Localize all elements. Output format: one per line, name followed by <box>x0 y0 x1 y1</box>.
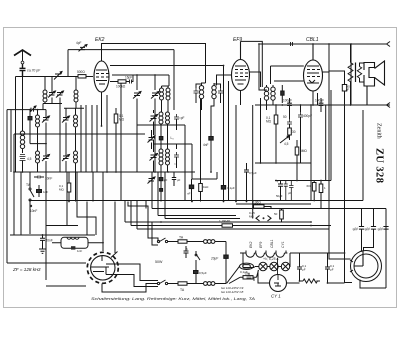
wire EF9 grid from IF <box>214 75 232 86</box>
bus y180 right <box>275 180 331 182</box>
row2 trimmer right <box>62 134 70 172</box>
can bottom rectangle <box>360 280 386 289</box>
variable capacitor C-ant <box>54 72 62 80</box>
svg-text:EK2: EK2 <box>95 37 105 43</box>
svg-text:50μF: 50μF <box>276 194 283 198</box>
IF transformer A upper coils <box>159 112 170 149</box>
wire x297 ext <box>296 163 298 181</box>
svg-text:CBL1: CBL1 <box>270 239 274 248</box>
filter cap 50uF a <box>352 209 364 252</box>
wire x14 ext <box>13 172 15 235</box>
wire x107 <box>106 95 108 172</box>
capacitor 1nF black <box>37 185 49 197</box>
wire y208 bus <box>152 208 386 210</box>
staircase A wires <box>46 172 78 226</box>
coil row1 left <box>36 110 40 144</box>
svg-text:MΩ: MΩ <box>249 214 254 218</box>
long bus y229 <box>137 201 329 230</box>
wire antenna bus <box>16 76 79 78</box>
battery taps 4,5 <box>20 155 32 173</box>
wire CBL1 g3 <box>317 93 319 105</box>
wire EK2 cathode down <box>101 92 103 126</box>
capacitor IF A low right <box>174 144 179 168</box>
wire frame-side vertical <box>6 110 8 263</box>
wire x192 ext <box>191 172 193 179</box>
resistor 1MOhm <box>114 108 124 172</box>
filter cap 50uF b <box>364 209 377 252</box>
svg-text:10nF: 10nF <box>30 209 37 213</box>
svg-text:0,1μF: 0,1μF <box>240 270 248 274</box>
capacitor 0,1uF left heater <box>240 270 254 281</box>
wire x266 down <box>266 105 268 110</box>
bus y179 <box>192 172 218 179</box>
wire x86 <box>85 105 87 172</box>
wire EF9 cathode <box>240 91 242 106</box>
capacitor x174 small <box>172 172 181 186</box>
resistor 50 box <box>274 209 283 223</box>
wire x311 <box>310 105 312 201</box>
capacitor right of electrolytic <box>288 181 293 201</box>
wire x97 <box>96 105 98 172</box>
svg-text:bei 110-125V C8: bei 110-125V C8 <box>221 290 244 294</box>
wire left vertical <box>15 77 17 173</box>
row A coil La2 <box>74 77 78 109</box>
capacitor below IF A <box>159 172 167 202</box>
wire x344b <box>345 209 353 283</box>
svg-text:μF: μF <box>330 268 334 272</box>
svg-text:EK2: EK2 <box>249 241 253 248</box>
svg-text:μF: μF <box>288 191 292 195</box>
capacitor 500pF <box>342 81 351 105</box>
svg-text:μF: μF <box>302 268 306 272</box>
bus row1 right <box>64 107 84 109</box>
wire y144 link <box>154 143 193 145</box>
capacitor 0,1uF screen black <box>221 186 235 191</box>
resistor 600 <box>307 181 317 201</box>
antenna <box>14 50 31 64</box>
wire CBL1 plate right <box>323 71 330 73</box>
band switch <box>87 252 118 284</box>
IF transformer B coils <box>199 83 216 110</box>
svg-text:100μF: 100μF <box>283 99 292 103</box>
mains switch bottom <box>157 280 178 285</box>
resistor mid <box>199 99 209 202</box>
dial lamp oval <box>240 263 254 269</box>
svg-text:≈pF: ≈pF <box>179 116 185 120</box>
wire x331 ext <box>330 163 332 181</box>
cap black row1 <box>28 110 32 126</box>
filter cap 50uF c <box>377 226 389 288</box>
svg-text:EF9: EF9 <box>259 242 263 248</box>
wire EK2 top to bus <box>102 44 206 84</box>
wire x386 down <box>385 209 387 289</box>
wire x351 vertical <box>350 44 352 105</box>
resistor 100kOhm <box>116 80 130 89</box>
svg-text:MΩ: MΩ <box>59 187 64 191</box>
wire x175 top <box>173 50 175 110</box>
capacitor 50pF <box>283 112 292 128</box>
svg-text:Zenith: Zenith <box>376 123 382 139</box>
wire x363 right long <box>362 110 364 201</box>
bus y134 <box>14 134 145 172</box>
wire EK2 plate right <box>110 66 224 202</box>
wire y75 screen <box>112 75 169 86</box>
capacitor series top right <box>259 42 336 46</box>
staircase C to mains switch <box>130 264 158 281</box>
lamp 2 <box>270 262 278 270</box>
svg-text:4pF: 4pF <box>76 41 82 45</box>
svg-text:MΩ: MΩ <box>119 118 125 122</box>
bus row1 left <box>11 110 29 172</box>
ground <box>39 245 46 254</box>
svg-text:4nF: 4nF <box>203 143 209 147</box>
wire x344 mid <box>344 105 346 209</box>
svg-text:Schalterstellung: Lang. Reihe: Schalterstellung: Lang. Reihenfolge: Kur… <box>91 297 255 301</box>
capacitor 10nF pair <box>34 176 52 181</box>
heater labels rotated <box>249 239 285 248</box>
svg-text:CY 1: CY 1 <box>271 294 281 299</box>
bus y172 <box>14 171 195 173</box>
wire CY1 sides <box>258 271 300 284</box>
capacitor 16pF grid <box>125 75 133 84</box>
svg-text:≈: ≈ <box>174 162 176 166</box>
svg-text:MΩ: MΩ <box>266 120 272 124</box>
svg-text:ca.70 pF: ca.70 pF <box>27 69 41 73</box>
wire CBL1 cathode <box>312 91 314 105</box>
lamp 3 <box>281 262 289 270</box>
wire x192 <box>191 144 193 172</box>
wave trap <box>52 237 103 253</box>
staircase B wires <box>128 202 158 242</box>
electrolytic can <box>350 251 382 282</box>
lamp 1 <box>259 262 267 270</box>
svg-text:ZU 328: ZU 328 <box>374 148 385 183</box>
wire x103 upper <box>102 172 104 202</box>
tube EF9 <box>232 37 250 91</box>
svg-text:500Ω: 500Ω <box>77 70 85 74</box>
resistor 500ohm <box>77 70 93 78</box>
wire x331 <box>330 90 332 163</box>
trimmer IF A mid <box>148 130 156 149</box>
wire x252 det <box>252 105 254 219</box>
wire EF9 plate <box>250 72 261 87</box>
trimmer row1 right <box>62 108 70 134</box>
capacitor 100pF a <box>283 98 292 112</box>
trimmer IF A low <box>150 140 158 172</box>
svg-text:5MΩ: 5MΩ <box>300 149 307 153</box>
wire x228 <box>228 81 230 201</box>
capacitor C right b <box>325 264 345 283</box>
heater chain bumps <box>243 251 287 258</box>
wire x236 <box>235 105 237 201</box>
tube EK2 <box>94 37 109 92</box>
resistor 0,1M AVC <box>266 105 278 163</box>
resistor 5M <box>295 140 307 163</box>
wire vertical x68 <box>67 50 69 77</box>
wire x92 <box>91 105 93 172</box>
wire top feedback y49 <box>68 49 174 51</box>
wire x152 drop <box>151 172 153 209</box>
svg-text:CY1: CY1 <box>281 241 285 248</box>
svg-text:ZF = 128 kHz: ZF = 128 kHz <box>12 267 41 272</box>
resistor 0,1M left <box>59 172 71 201</box>
svg-text:20nF: 20nF <box>46 239 53 243</box>
svg-text:50W: 50W <box>155 260 163 264</box>
capacitor IF B right <box>214 84 223 103</box>
long bus y222 <box>125 201 311 223</box>
wire x300 ext <box>300 125 302 163</box>
wire y71 short <box>329 71 345 81</box>
tall antenna coil <box>20 71 24 153</box>
wire x47 <box>45 172 47 280</box>
svg-text:4,5: 4,5 <box>27 157 32 161</box>
svg-text:0,5μF: 0,5μF <box>199 271 207 275</box>
svg-text:50: 50 <box>283 115 287 119</box>
capacitor 0,5uF <box>194 266 207 284</box>
tube CY1 <box>270 258 287 299</box>
wire switch right a <box>106 263 130 265</box>
wire grid side <box>110 81 118 83</box>
capacitor 4nF screen <box>203 99 214 172</box>
capacitor 0,5uF det <box>244 163 257 202</box>
capacitor IF C <box>281 85 284 103</box>
capacitor IF B left <box>194 84 202 103</box>
long bus y200 <box>29 200 363 202</box>
row2 coil left <box>36 144 40 172</box>
resistor 30k <box>288 128 296 140</box>
resistor zigzag bottom <box>303 279 317 283</box>
voltage selector switch <box>195 251 200 266</box>
junction dot x351 top <box>350 43 352 45</box>
svg-text:20μF: 20μF <box>210 257 219 261</box>
capacitor ca.70pF <box>20 64 42 77</box>
trimmer C k2 <box>151 75 159 172</box>
bus y143 <box>30 126 46 144</box>
speaker <box>364 61 385 105</box>
title Zenith <box>374 123 385 183</box>
bus y218 <box>165 172 240 219</box>
mains switch top <box>157 238 178 243</box>
svg-text:μF: μF <box>177 178 181 182</box>
wire top CBL1 loop <box>259 44 267 90</box>
lamp row wires <box>243 253 290 268</box>
capacitor IF A mid black <box>159 130 163 149</box>
primary coil top <box>204 240 227 244</box>
capacitor IF A right <box>174 114 185 130</box>
wire EF9 top link <box>241 41 263 87</box>
wire ZF bus y263 <box>7 262 86 264</box>
capacitor 10nF black mid <box>187 179 194 202</box>
wire x326 <box>325 105 327 181</box>
terminal bottom right <box>372 103 390 108</box>
wire switch right b <box>106 274 130 276</box>
trimmer row1 left <box>42 110 50 144</box>
resistor right pair <box>319 181 326 209</box>
transformer core <box>355 63 357 83</box>
AVC bus y105 <box>255 104 390 106</box>
capacitor 20uF <box>210 242 228 284</box>
svg-text:4,5: 4,5 <box>284 142 289 146</box>
capacitor 100pF b <box>315 98 324 112</box>
lamp dropper resistor <box>227 266 259 283</box>
wire x93b <box>92 172 94 202</box>
svg-text:1kΩ: 1kΩ <box>203 185 209 189</box>
primary coil bottom <box>204 282 227 286</box>
svg-text:1nF: 1nF <box>77 249 82 253</box>
potentiometer 0,25M <box>249 211 271 221</box>
wire x329 vertical <box>328 44 330 105</box>
capacitor C right a <box>297 264 307 275</box>
bus y215 <box>158 172 236 216</box>
IF transformer C coils <box>264 85 275 105</box>
wire x81 <box>80 105 82 172</box>
wire y163 <box>255 162 311 164</box>
junction dot <box>281 92 283 94</box>
svg-text:600: 600 <box>307 184 312 188</box>
svg-text:CBL1: CBL1 <box>306 37 319 43</box>
long bus y235 <box>10 234 95 236</box>
output transformer secondary <box>357 63 364 82</box>
svg-text:30: 30 <box>292 130 296 134</box>
wire x329 lower <box>329 105 351 259</box>
svg-text:50: 50 <box>274 212 278 216</box>
resistor 1360 <box>253 201 271 209</box>
trimmer C k1 <box>133 75 141 172</box>
row A trimmer 1 <box>48 77 56 104</box>
trimmer below IF A <box>148 177 156 184</box>
IF transformer A lower coils <box>159 149 170 172</box>
svg-text:nF: nF <box>187 192 191 196</box>
TA switch left <box>26 172 34 234</box>
fuse TA top <box>178 236 203 244</box>
svg-text:pF: pF <box>346 88 350 92</box>
capacitor 20nF <box>40 234 53 249</box>
bus y204 <box>236 203 311 205</box>
svg-text:16pF: 16pF <box>125 76 132 80</box>
label 10nF lower <box>30 205 38 213</box>
wire x121 <box>120 83 122 201</box>
output transformer primary <box>348 44 353 105</box>
svg-text:+V, 6,25 A: +V, 6,25 A <box>263 257 279 261</box>
label voltage <box>221 286 244 294</box>
coil row1 right <box>74 108 78 134</box>
row A bus <box>43 104 62 110</box>
terminal top right <box>323 42 391 47</box>
wire x185 <box>184 125 186 201</box>
wire CBL1 grid <box>274 80 304 82</box>
heater bottom wires <box>290 253 345 281</box>
trimmer capacitor top left <box>76 41 87 51</box>
trimmer IF A <box>150 110 158 135</box>
capacitor 4000pF <box>298 105 312 125</box>
wire x146 drop <box>145 201 147 209</box>
svg-text:1,28MΩ: 1,28MΩ <box>219 220 231 224</box>
series trimmer row1 <box>29 106 46 112</box>
coil pair top x161 x168 <box>160 86 171 112</box>
wire x21 ext <box>20 172 22 235</box>
fuse TA bottom <box>178 282 203 292</box>
svg-text:100μF: 100μF <box>315 99 324 103</box>
bus y125 <box>137 124 185 126</box>
tube CBL1 <box>304 37 323 91</box>
row2 trimmer left <box>42 144 50 172</box>
row A coil La1 <box>43 77 47 104</box>
wire x261 <box>260 98 262 163</box>
capacitor 5nF mains <box>184 246 189 258</box>
svg-text:0,1μF: 0,1μF <box>227 186 235 190</box>
resistor 128k horizontal <box>131 201 331 228</box>
electrolytic 50uF pair <box>276 180 288 201</box>
row A trimmer 2 <box>56 91 64 172</box>
wire CBL1 screen y66 <box>271 66 304 84</box>
row2 coil right <box>74 134 78 202</box>
potentiometer arrow <box>280 136 289 146</box>
